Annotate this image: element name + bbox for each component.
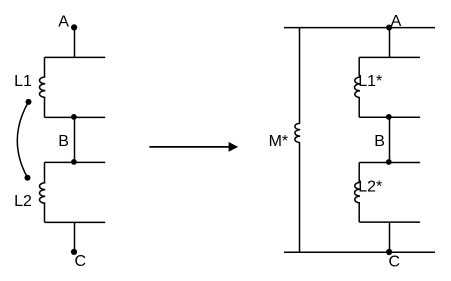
wire inner left edge above L1* [358,57,360,77]
svg-text:A: A [391,13,402,30]
node C terminal dot (left circuit) [71,249,77,255]
svg-text:B: B [58,133,69,150]
wire top rail (left circuit) [45,56,106,58]
wire inner top rail (right circuit) [359,56,420,58]
svg-text:C: C [389,253,401,270]
wire from node A down to inner top rail [389,28,391,58]
wire bottom rail (right circuit) [284,251,435,253]
wire inner left edge below L2* [358,203,360,222]
junction dot at node B upper (right circuit) [386,114,392,120]
junction dot at node B upper (left circuit) [71,114,77,120]
wire node B vertical link (right circuit) [389,117,391,162]
wire from bottom rail down to node C [74,222,76,252]
wire mid rail lower (left circuit) [45,161,106,163]
node C junction dot (right circuit) [386,249,392,255]
wire from inner bottom rail down to node C [389,222,391,252]
node A terminal dot (left circuit) [71,24,77,30]
svg-text:B: B [374,133,385,150]
wire left edge below L1 [44,97,46,117]
svg-text:C: C [75,253,87,270]
arrow head [229,142,239,152]
inductor L2 [40,183,46,203]
wire bottom rail (left circuit) [45,221,106,223]
wire inner mid rail lower (right circuit) [359,162,420,164]
wire inner left edge above L2* [358,163,360,183]
inductor L1 [40,77,46,97]
svg-text:L2: L2 [14,193,32,210]
coupling dot at L1 [26,99,32,105]
wire left edge below L2 [44,203,46,222]
wire M* branch upper [299,28,301,124]
wire inner bottom rail (right circuit) [359,221,420,223]
junction dot at node B lower (right circuit) [386,159,392,165]
wire left edge above L1 [44,57,46,77]
wire M* branch lower [299,143,301,253]
svg-text:L1*: L1* [358,73,382,90]
wire from node A down to top rail [74,27,76,57]
wire left edge above L2 [44,162,46,182]
junction dot at node B lower (left circuit) [71,159,77,165]
wire inner mid rail upper (right circuit) [359,116,420,118]
wire mid rail upper (left circuit) [45,116,106,118]
inductor M* [295,123,300,142]
coupling dot at L2 [25,175,31,181]
svg-text:A: A [58,13,69,30]
wire top rail (right circuit) [284,27,435,29]
node A junction dot (right circuit) [386,25,392,31]
svg-text:L1: L1 [14,73,32,90]
svg-text:M*: M* [269,133,289,150]
coupling arc between L1 and L2 [17,102,28,178]
svg-text:L2*: L2* [358,178,382,195]
wire node B vertical link (left circuit) [74,117,76,162]
inductor L2* [355,182,361,203]
inductor L1* [355,77,360,98]
arrow shaft (transformation arrow) [149,146,229,148]
wire inner left edge below L1* [358,98,360,118]
